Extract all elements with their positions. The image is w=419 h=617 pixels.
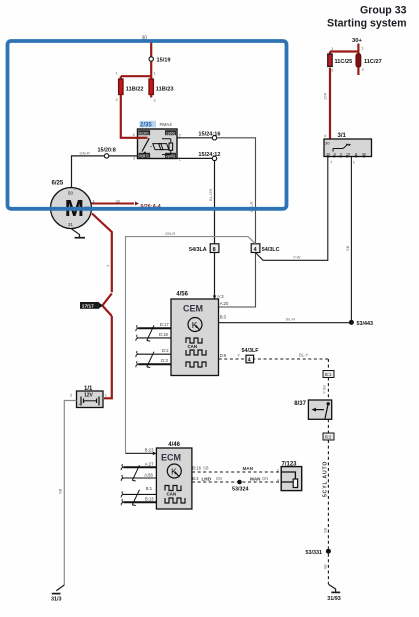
svg-text:15/24:12: 15/24:12: [198, 152, 220, 158]
svg-text:4/46: 4/46: [168, 442, 180, 448]
svg-text:MAN: MAN: [243, 466, 254, 471]
dashed wire 8/37 down: [327, 419, 329, 433]
svg-text:SB: SB: [322, 527, 327, 533]
CEM left pin D:17: [138, 327, 171, 329]
svg-text:11C/27: 11C/27: [364, 59, 382, 65]
svg-text:Y-SB: Y-SB: [321, 385, 326, 394]
svg-text:BL-GR: BL-GR: [208, 189, 213, 201]
wire fuse 11B/22 to relay pin 8(30): [121, 95, 138, 138]
svg-text:D:9: D:9: [220, 353, 227, 358]
fuse 11C/25: [328, 54, 333, 67]
battery 1/1: [77, 386, 104, 408]
connector pin B:1: [323, 371, 334, 378]
CEM 4/56: [171, 292, 219, 376]
svg-text:B:1: B:1: [325, 372, 332, 377]
svg-text:D:18: D:18: [159, 332, 169, 337]
connector 7/123: [281, 461, 302, 490]
wire relay pin 2(85) to 15/24:12: [177, 157, 212, 159]
wire 15/24:12 down to CEM A:3 (BL-GR): [214, 161, 216, 299]
fuse 11C/27: [356, 54, 361, 68]
svg-text:16R: 16R: [323, 93, 328, 100]
ECM 4/46: [156, 442, 192, 509]
svg-text:30: 30: [325, 141, 330, 146]
svg-text:FMA4: FMA4: [160, 122, 173, 127]
svg-text:11C/25: 11C/25: [335, 59, 353, 65]
dashed wire ECM B:16 to 7/123 pin 2: [192, 471, 281, 473]
ground 31/3: [52, 593, 61, 595]
svg-text:D:2: D:2: [162, 348, 169, 353]
CEM left pin D:2: [138, 353, 171, 355]
svg-text:Group 33: Group 33: [360, 5, 407, 17]
ECM left pin B:13: [124, 501, 157, 503]
svg-text:15/20:8: 15/20:8: [98, 148, 116, 154]
svg-text:B:13: B:13: [145, 497, 154, 502]
svg-text:17/17: 17/17: [82, 304, 94, 310]
wire from 15/19 to fuse branch: [121, 61, 151, 79]
connector 54/3LA pin 8: [210, 244, 219, 253]
connector 54/3LC pin 4: [251, 244, 260, 253]
svg-text:B:3: B:3: [220, 315, 227, 320]
svg-text:A:20: A:20: [220, 301, 229, 306]
node 53/324: [237, 480, 242, 485]
connector 54/3LF pin 4: [246, 355, 254, 363]
svg-text:D:17: D:17: [160, 322, 170, 327]
svg-text:SB: SB: [58, 488, 63, 494]
svg-text:D:3: D:3: [161, 358, 168, 363]
connector 17/17: [80, 294, 112, 317]
dashed wire CEM D:9 to 8/37: [219, 359, 329, 371]
dashed wire B:1 to 8/37: [327, 378, 329, 400]
svg-text:K: K: [192, 320, 198, 330]
ground 31 bar: [75, 237, 85, 239]
svg-text:15/24:16: 15/24:16: [198, 131, 220, 137]
svg-text:A:3: A:3: [217, 294, 224, 299]
svg-text:3/1: 3/1: [338, 133, 347, 139]
svg-text:GN-R: GN-R: [165, 231, 175, 236]
wire Y-W from 54/3LC to ignition switch 3/1: [256, 157, 328, 261]
ECM left pin A:56: [124, 477, 157, 479]
svg-text:31/3: 31/3: [51, 597, 62, 603]
svg-text:GN-R: GN-R: [80, 150, 90, 155]
svg-text:4: 4: [248, 358, 251, 364]
wire relay pin 1(86) to 15/24:16: [177, 137, 212, 139]
svg-text:6/25: 6/25: [52, 181, 64, 187]
motor ground wire: [71, 229, 79, 237]
svg-text:B:2: B:2: [325, 435, 332, 440]
wire to battery pin 1: [104, 316, 112, 398]
wire motor to 15/20:8 to relay pin 9(87): [72, 156, 138, 188]
svg-text:53/324: 53/324: [232, 486, 249, 492]
wire 15/24:16 to 54/3LC (GN-R): [217, 138, 256, 307]
node 15/20:8: [104, 154, 108, 158]
wire GN-R from ECM B:23 up and to 54/3LC node: [126, 237, 256, 454]
svg-text:1/1: 1/1: [84, 386, 93, 392]
twisted pair slash 1: [147, 325, 154, 341]
svg-text:A:27: A:27: [145, 462, 154, 467]
CEM left pin D:18: [138, 337, 171, 339]
svg-text:8/37: 8/37: [294, 401, 306, 407]
svg-text:B:23: B:23: [145, 448, 154, 453]
node 15/24:12: [212, 156, 216, 160]
ground 31/93: [331, 591, 340, 593]
svg-text:11B/23: 11B/23: [156, 87, 174, 93]
svg-text:BL-R: BL-R: [286, 317, 295, 322]
fuse 11B/23: [149, 79, 153, 95]
relay 2/35: [137, 121, 177, 159]
svg-text:50: 50: [68, 191, 73, 196]
svg-text:LHD: LHD: [202, 476, 212, 481]
svg-text:54/3LF: 54/3LF: [242, 348, 260, 354]
svg-text:7/123: 7/123: [282, 461, 298, 467]
svg-text:12V: 12V: [84, 393, 94, 399]
motor 6/25: [51, 181, 92, 229]
wire 30 from motor to 6/26:A-4: [92, 203, 135, 205]
svg-text:GN: GN: [216, 476, 222, 481]
wire 30 feed top: [150, 41, 152, 57]
svg-text:GN: GN: [262, 476, 268, 481]
wire 30+ feed right: [330, 44, 358, 54]
svg-text:A:56: A:56: [144, 472, 153, 477]
svg-text:30+: 30+: [352, 38, 362, 44]
svg-text:BL-Y: BL-Y: [299, 353, 309, 358]
dashed wire to 53/331: [327, 440, 329, 549]
CEM left pin D:3: [138, 363, 171, 365]
wire BL-R from CEM B:3 to node 53/443: [219, 157, 352, 323]
svg-text:54/3LC: 54/3LC: [262, 247, 280, 253]
dashed wire 53/331 to ground: [327, 554, 329, 584]
svg-text:ECM: ECM: [161, 453, 181, 463]
svg-text:Y-W: Y-W: [293, 255, 301, 260]
svg-text:53/443: 53/443: [357, 321, 374, 327]
svg-text:K: K: [171, 467, 177, 477]
svg-text:SB: SB: [322, 564, 327, 570]
twisted pair slash 4: [132, 490, 139, 506]
svg-text:B:4: B:4: [192, 476, 199, 481]
svg-text:B:1: B:1: [146, 486, 153, 491]
fuse 11B/22: [119, 79, 123, 95]
wire fuse 11B/23 stub: [150, 95, 152, 98]
node 15/19: [149, 57, 153, 61]
node 53/443: [349, 320, 354, 325]
svg-text:2/35: 2/35: [140, 122, 152, 128]
svg-text:1(86): 1(86): [166, 130, 176, 135]
svg-text:54/3LA: 54/3LA: [189, 247, 207, 253]
twisted pair slash 2: [147, 352, 154, 368]
svg-text:30: 30: [116, 198, 121, 203]
svg-text:53/331: 53/331: [306, 550, 323, 556]
svg-text:Starting system: Starting system: [327, 17, 406, 29]
svg-text:8: 8: [213, 247, 216, 253]
svg-text:4/56: 4/56: [176, 292, 188, 298]
wire fuse 11C/25 down to 3/1: [329, 68, 331, 139]
svg-text:SB: SB: [345, 245, 350, 251]
node 15/24:16: [212, 136, 216, 140]
svg-text:11B/22: 11B/22: [126, 87, 144, 93]
svg-text:15/19: 15/19: [157, 58, 171, 64]
ignition switch 3/1: [324, 133, 372, 157]
svg-text:5CYL AUTO: 5CYL AUTO: [322, 461, 328, 497]
ECM left pin A:27: [124, 466, 157, 468]
svg-text:SB: SB: [203, 466, 209, 471]
twisted pair slash 3: [132, 465, 139, 481]
svg-text:CAN: CAN: [167, 492, 177, 497]
wire battery negative to ground 31/3: [64, 401, 76, 586]
svg-text:B:16: B:16: [192, 466, 201, 471]
svg-text:+: +: [78, 403, 80, 407]
svg-text:CEM: CEM: [183, 304, 203, 314]
svg-text:MAN: MAN: [250, 476, 261, 481]
svg-text:31/93: 31/93: [327, 596, 341, 602]
svg-text:4: 4: [254, 247, 257, 253]
ECM left pin B:1: [124, 493, 157, 495]
dashed wire ECM B:4 to 7/123 pin 4: [192, 481, 281, 483]
relay 8/37: [294, 400, 331, 419]
wire fuse 11C/27 stub: [357, 67, 359, 75]
blue frame: [8, 41, 287, 209]
svg-text:31: 31: [68, 222, 73, 227]
svg-text:Y: Y: [237, 353, 240, 358]
node 53/331: [326, 549, 331, 554]
svg-text:CAN: CAN: [188, 344, 198, 349]
connector pin B:2: [323, 433, 334, 440]
wire battery positive from motor: [92, 214, 112, 293]
svg-text:8(30): 8(30): [139, 130, 149, 135]
